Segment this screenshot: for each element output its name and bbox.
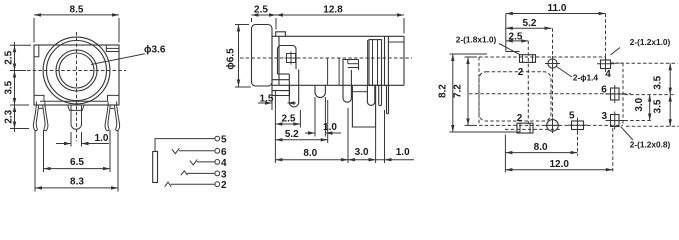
svg-text:3.5: 3.5	[653, 99, 664, 113]
svg-text:6.5: 6.5	[70, 157, 84, 168]
svg-text:3: 3	[602, 111, 608, 122]
svg-text:ϕ6.5: ϕ6.5	[226, 48, 237, 70]
svg-text:2.5: 2.5	[509, 32, 523, 43]
svg-text:5.2: 5.2	[523, 18, 537, 29]
svg-text:2-ϕ1.4: 2-ϕ1.4	[573, 73, 599, 83]
svg-text:6: 6	[221, 147, 227, 158]
svg-text:12.0: 12.0	[549, 159, 569, 170]
svg-text:1.0: 1.0	[396, 147, 410, 158]
svg-text:2.5: 2.5	[254, 5, 268, 16]
svg-text:7.2: 7.2	[453, 84, 464, 98]
svg-text:2-(1.8x1.0): 2-(1.8x1.0)	[456, 35, 497, 45]
svg-text:2.5: 2.5	[4, 50, 15, 64]
svg-text:8.3: 8.3	[70, 176, 84, 187]
svg-text:3.0: 3.0	[634, 97, 645, 111]
svg-text:4: 4	[605, 69, 611, 80]
svg-text:3: 3	[221, 169, 227, 180]
svg-text:2.3: 2.3	[4, 109, 15, 123]
svg-text:3.5: 3.5	[4, 80, 15, 94]
svg-text:5.2: 5.2	[285, 129, 299, 140]
svg-text:8.5: 8.5	[70, 5, 84, 16]
svg-text:1.5: 1.5	[260, 94, 274, 105]
svg-text:6: 6	[601, 85, 607, 96]
svg-text:3.5: 3.5	[653, 75, 664, 89]
svg-text:2: 2	[221, 180, 227, 191]
svg-text:8.0: 8.0	[534, 142, 548, 153]
svg-text:2.5: 2.5	[282, 114, 296, 125]
svg-text:2: 2	[517, 113, 523, 124]
svg-text:12.8: 12.8	[323, 5, 343, 16]
svg-text:5: 5	[221, 135, 227, 146]
svg-text:8.2: 8.2	[437, 84, 448, 98]
svg-text:1.0: 1.0	[95, 133, 109, 144]
svg-text:3.0: 3.0	[355, 147, 369, 158]
svg-text:5: 5	[569, 111, 575, 122]
svg-text:2-(1.2x1.0): 2-(1.2x1.0)	[630, 37, 671, 47]
svg-text:2: 2	[518, 67, 524, 78]
svg-text:1.0: 1.0	[323, 122, 337, 133]
svg-text:8.0: 8.0	[303, 148, 317, 159]
svg-text:4: 4	[221, 158, 227, 169]
svg-text:2-(1.2x0.8): 2-(1.2x0.8)	[630, 140, 671, 150]
svg-text:ϕ3.6: ϕ3.6	[144, 45, 166, 56]
svg-text:11.0: 11.0	[548, 3, 567, 14]
